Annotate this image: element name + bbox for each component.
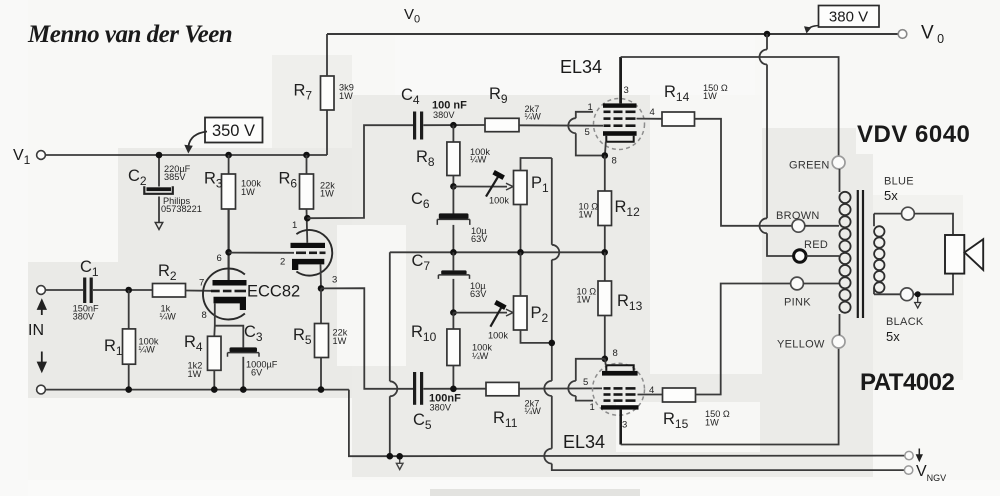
svg-text:¼W: ¼W: [525, 112, 542, 122]
wire NGV bus: [544, 158, 904, 470]
svg-text:1W: 1W: [188, 369, 202, 379]
svg-text:PINK: PINK: [784, 297, 811, 309]
svg-text:BROWN: BROWN: [776, 210, 820, 222]
potentiometer P1: [453, 158, 551, 252]
resistor R3: [204, 152, 261, 280]
node BLUE terminal: [874, 213, 902, 215]
svg-text:5: 5: [583, 377, 588, 388]
svg-text:100k: 100k: [489, 196, 509, 206]
svg-text:8: 8: [202, 310, 207, 321]
node junction pin3: [318, 285, 325, 292]
svg-text:RED: RED: [804, 239, 828, 251]
svg-text:¼W: ¼W: [139, 345, 156, 355]
svg-text:GREEN: GREEN: [789, 160, 830, 172]
svg-text:385V: 385V: [164, 172, 186, 182]
svg-text:BLACK: BLACK: [886, 316, 924, 328]
wire pin6 to grid U1b: [229, 252, 294, 254]
svg-text:PAT4002: PAT4002: [860, 369, 954, 396]
node RED terminal: [794, 250, 806, 262]
triode U1b circle: [296, 230, 332, 276]
node IN arrow up: [38, 301, 46, 316]
node junction C4/R8/R9: [450, 122, 457, 129]
svg-text:¼W: ¼W: [160, 312, 177, 322]
wire mid rail: [390, 251, 605, 253]
svg-text:1: 1: [588, 102, 593, 113]
resistor R5: [293, 288, 348, 393]
svg-text:5x: 5x: [884, 188, 898, 203]
triode U1b grid pin2: [296, 252, 326, 255]
node GREEN terminal: [832, 156, 845, 169]
capacitor C2: [128, 152, 202, 230]
svg-text:63V: 63V: [471, 234, 488, 244]
svg-text:5x: 5x: [886, 329, 900, 344]
tube V2 anode pin3: [603, 103, 637, 107]
triode U1a anode plate pin6: [213, 280, 247, 286]
svg-text:ECC82: ECC82: [247, 283, 300, 301]
svg-text:350 V: 350 V: [212, 122, 255, 140]
wire ground rail input: [46, 389, 349, 391]
node BROWN terminal: [792, 219, 805, 232]
node junction V0/B+: [764, 31, 771, 38]
svg-text:3: 3: [624, 85, 629, 96]
wire R9 to EL34 V2 g1: [519, 124, 603, 126]
wire V2 anode to GREEN: [621, 57, 839, 156]
wire cathode lead U1a: [214, 303, 243, 347]
svg-text:3: 3: [622, 420, 627, 431]
wire R1 bottom: [128, 364, 130, 389]
node IN terminal top: [37, 286, 46, 295]
tube V2 grids: [604, 112, 636, 126]
svg-text:3: 3: [332, 275, 337, 286]
svg-text:1W: 1W: [241, 187, 255, 197]
svg-text:YELLOW: YELLOW: [777, 339, 825, 351]
svg-text:380V: 380V: [430, 403, 452, 413]
node junction V3 cathode: [602, 356, 609, 363]
resistor R6: [279, 152, 336, 243]
node IN terminal bottom: [37, 385, 46, 394]
node junction R8/C6/P1 wiper: [450, 183, 457, 190]
tube V2 EL34 dashed circle: [594, 99, 645, 150]
triode U1a circle: [203, 269, 245, 320]
node 380V label box: [819, 6, 880, 28]
wire gnd jog down to bottom rail: [349, 390, 905, 457]
node junction V2 cathode: [602, 152, 609, 159]
node IN arrow down: [38, 352, 46, 372]
svg-text:4: 4: [650, 107, 655, 118]
node junction R1 gnd: [125, 386, 132, 393]
svg-text:¼W: ¼W: [470, 155, 487, 165]
triode U1b cathode pin3: [292, 259, 324, 270]
svg-text:EL34: EL34: [560, 57, 602, 77]
tube V3 cathode pin8: [602, 371, 638, 376]
triode U1a cathode pin8: [214, 297, 247, 310]
node junction R12/R13 mid rail: [601, 249, 608, 256]
node 350V label box: [205, 118, 263, 143]
wire 350V rail: [46, 154, 328, 156]
resistor R2: [153, 284, 186, 298]
resistor R4: [184, 333, 221, 393]
wire pin3 to C5: [321, 288, 413, 389]
resistor R12: [579, 156, 641, 253]
tube V2 cathode pin8: [603, 131, 637, 136]
svg-text:EL34: EL34: [563, 432, 605, 452]
wire R11 to EL34 V3 g1: [519, 387, 602, 389]
svg-text:Menno van der Veen: Menno van der Veen: [27, 21, 232, 48]
node V1 terminal: [37, 151, 46, 160]
wire B+ drop to RED: [760, 34, 794, 256]
node junction P2/bus: [549, 340, 556, 347]
resistor R15: [638, 284, 791, 432]
resistor R11: [486, 382, 519, 395]
resistor R9: [485, 118, 519, 131]
resistor R1: [123, 329, 136, 364]
wire V0 top rail: [327, 33, 898, 35]
node junction gnd column: [387, 453, 394, 460]
wire BROWN to coil: [805, 225, 839, 227]
resistor R13: [577, 252, 643, 358]
svg-text:8: 8: [612, 156, 617, 167]
svg-text:1W: 1W: [339, 91, 353, 101]
svg-text:1: 1: [590, 402, 595, 413]
wire cathode U1b to pin3 node: [320, 264, 323, 288]
resistor R10: [411, 313, 492, 389]
potentiometer P2: [453, 252, 551, 343]
wire C1 to R2: [93, 289, 153, 291]
resistor R14: [637, 83, 793, 226]
resistor R8: [416, 125, 490, 186]
svg-text:8: 8: [613, 348, 618, 359]
svg-text:1W: 1W: [333, 336, 347, 346]
wire mid-rail to ground column: [390, 252, 398, 456]
svg-text:7: 7: [199, 278, 204, 289]
svg-text:05738221: 05738221: [161, 204, 202, 214]
wire BLACK to speaker: [913, 274, 953, 295]
wire V3 anode to YELLOW: [621, 348, 839, 445]
node BLACK terminal: [874, 293, 901, 295]
node junction P1/P2: [517, 249, 524, 256]
triode U1b anode plate pin1: [291, 243, 326, 248]
wire RED to coil: [806, 255, 839, 257]
transformer T1 core: [857, 190, 859, 318]
triode U1a grid pin7: [211, 290, 246, 293]
wire BLUE to speaker: [914, 214, 953, 235]
svg-text:1W: 1W: [579, 210, 593, 220]
svg-text:1W: 1W: [577, 295, 591, 305]
capacitor C5: [413, 372, 461, 432]
wire R2 to grid pin7: [186, 290, 212, 292]
tube V3 anode pin3: [601, 405, 639, 409]
node gnd terminal right: [905, 451, 913, 459]
node junction pin1: [304, 215, 311, 222]
svg-text:IN: IN: [28, 322, 44, 339]
svg-text:BLUE: BLUE: [884, 176, 914, 188]
capacitor C4: [401, 86, 467, 140]
wire R1 column: [128, 290, 130, 329]
svg-text:1W: 1W: [320, 189, 334, 199]
speaker LS1: [945, 235, 964, 274]
wire pin1 to C4: [307, 125, 413, 218]
svg-text:¼W: ¼W: [472, 351, 489, 361]
tube V3 grids: [604, 388, 636, 400]
wire V3 g3 bracket to cathode: [568, 359, 604, 401]
resistor R7: [294, 34, 354, 155]
wire input top: [46, 289, 84, 291]
svg-text:2: 2: [280, 257, 285, 268]
capacitor C1: [83, 278, 86, 304]
wire C5 to R11: [423, 388, 486, 390]
wire PINK to coil: [803, 283, 839, 285]
svg-text:6V: 6V: [251, 368, 263, 378]
transformer T1 secondary: [873, 214, 875, 295]
svg-text:1W: 1W: [705, 418, 719, 428]
svg-text:380V: 380V: [73, 312, 95, 322]
node junction pin6: [225, 249, 232, 256]
svg-text:5: 5: [585, 127, 590, 138]
svg-text:100k: 100k: [488, 331, 508, 341]
transformer T1 primary: [839, 169, 841, 192]
svg-text:1: 1: [292, 220, 297, 231]
capacitor C7: [412, 252, 488, 313]
svg-text:6: 6: [217, 253, 222, 264]
svg-text:1W: 1W: [703, 91, 717, 101]
node VNGV terminal: [904, 466, 912, 474]
capacitor C6: [411, 186, 488, 252]
node V0 terminal right: [898, 30, 907, 39]
wire C4 to R9: [423, 124, 485, 126]
svg-text:380 V: 380 V: [829, 9, 868, 26]
svg-text:VDV 6040: VDV 6040: [857, 121, 970, 148]
svg-text:¼W: ¼W: [525, 406, 542, 416]
node PINK terminal: [791, 277, 804, 290]
node YELLOW terminal: [832, 335, 845, 348]
svg-text:380V: 380V: [433, 110, 455, 120]
node junction NGV arrow: [396, 453, 403, 460]
wire V2 g3 bracket to cathode: [568, 112, 604, 156]
capacitor C3: [228, 323, 278, 393]
node junction C5/R10/R11: [450, 386, 457, 393]
node junction C6/C7: [450, 249, 457, 256]
node junction BLACK gnd mark: [915, 291, 921, 297]
node junction C1/R1: [125, 287, 132, 294]
svg-text:63V: 63V: [470, 289, 487, 299]
node junction C7/R10/P2 wiper: [450, 309, 457, 316]
tube V3 EL34 dashed circle: [593, 363, 645, 415]
